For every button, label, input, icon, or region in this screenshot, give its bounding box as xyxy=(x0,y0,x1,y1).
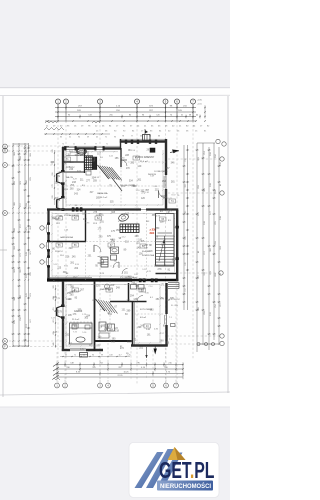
left sheet edge line xyxy=(0,96,7,397)
middle band right outer wall xyxy=(176,210,179,281)
interior wall vertical living room right xyxy=(165,190,167,198)
tiny annotation texts above top wall xyxy=(60,136,160,146)
interior wall vertical mid-left divider xyxy=(85,210,87,242)
chimney ellipse end dots xyxy=(77,151,86,153)
entrance arrow marker right side xyxy=(170,150,179,154)
middle band top wall xyxy=(47,206,178,211)
interior wall dimension chains xyxy=(52,150,177,347)
svg-text:22.35: 22.35 xyxy=(117,375,123,377)
svg-text:4.10 OBLOZ.: 4.10 OBLOZ. xyxy=(169,299,181,301)
dark hatched shaft rect xyxy=(120,224,139,233)
interior wall horizontal upper-left xyxy=(64,161,85,163)
left bay window upper xyxy=(57,172,64,185)
right axis marker circles xyxy=(216,139,226,345)
svg-text:97: 97 xyxy=(84,144,86,146)
svg-text:266: 266 xyxy=(52,172,54,175)
hallway fixtures lower-left of stairs xyxy=(101,247,119,267)
svg-text:10.25: 10.25 xyxy=(123,371,129,373)
basement stair diagonal hatch xyxy=(98,165,123,191)
svg-text:C: C xyxy=(4,164,6,167)
logo gold roof triangle xyxy=(168,447,186,460)
lower-right outer right wall xyxy=(165,283,175,346)
svg-text:90: 90 xyxy=(78,137,80,139)
left vertical dimension lines xyxy=(11,143,30,347)
lower wing mid vertical wall xyxy=(94,281,96,351)
garage interior car rect xyxy=(70,323,93,344)
svg-text:77: 77 xyxy=(131,136,133,138)
bottom grey band xyxy=(0,407,230,500)
building outer top wall left section xyxy=(62,146,121,148)
right sheet edge line xyxy=(227,96,229,393)
lower axis circle 7 xyxy=(105,284,110,289)
svg-text:99: 99 xyxy=(101,354,103,356)
svg-text:88: 88 xyxy=(158,136,160,138)
top sheet crease line xyxy=(0,94,230,97)
room label texts xyxy=(55,151,180,355)
svg-text:SCHODOWA: SCHODOWA xyxy=(142,254,155,257)
bottom-edge dimension chain below building xyxy=(60,354,131,357)
left dimension rotated numbers xyxy=(14,148,32,327)
middle band left outer wall with three windows xyxy=(47,210,50,282)
door dimension arrow below xyxy=(145,347,147,358)
mid-room door arcs pair xyxy=(94,245,104,263)
svg-text:+2.80: +2.80 xyxy=(197,100,202,102)
garage bottom wall with door opening xyxy=(62,348,103,350)
lower-right bottom wall xyxy=(131,344,168,346)
svg-text:GET.PL: GET.PL xyxy=(159,457,215,483)
bay window corner blocks xyxy=(61,170,64,318)
svg-text:POKOJ DZIENNY: POKOJ DZIENNY xyxy=(135,156,155,159)
exterior ramp diagonal hatch xyxy=(96,299,118,314)
fireplace black rect on top wall xyxy=(150,148,155,152)
svg-text:1.8 OBLOZENIA: 1.8 OBLOZENIA xyxy=(154,170,168,173)
lower-left outside dimension chain xyxy=(53,285,56,348)
svg-text:243: 243 xyxy=(52,149,54,152)
outside-left dimension chain xyxy=(52,149,55,205)
svg-text:45: 45 xyxy=(96,137,98,139)
svg-text:+0.00: +0.00 xyxy=(197,104,202,106)
svg-text:31: 31 xyxy=(69,137,71,139)
interior wall horizontal mid-left rooms xyxy=(50,241,86,243)
top dimension line row 2 xyxy=(55,110,206,114)
exterior entry steps right side xyxy=(168,283,179,289)
horizontal axis grid dashed lines xyxy=(8,146,219,347)
svg-text:39: 39 xyxy=(87,137,89,139)
door arc living room xyxy=(159,191,167,199)
small node circles on dashed line y344 xyxy=(197,343,215,346)
svg-text:KL. 0/30: KL. 0/30 xyxy=(171,305,178,307)
hall door arcs xyxy=(113,262,128,274)
svg-text:51: 51 xyxy=(73,144,75,146)
svg-text:90: 90 xyxy=(92,354,94,356)
svg-text:108: 108 xyxy=(109,354,112,356)
building outer top wall raised middle section xyxy=(120,139,167,150)
svg-text:126: 126 xyxy=(127,354,130,356)
corridor double wall vertical xyxy=(133,302,135,346)
logo blue stripes xyxy=(135,449,183,488)
bottom-left break slashes xyxy=(52,363,60,381)
svg-text:117: 117 xyxy=(118,354,121,356)
bottom dimension row 3 xyxy=(56,371,183,375)
svg-text:78: 78 xyxy=(122,136,124,138)
svg-text:31.4 m2: 31.4 m2 xyxy=(140,161,149,163)
kitchen counter line xyxy=(66,151,93,156)
near-building right dimension line pair xyxy=(182,145,189,310)
mid-left axis circles E F G xyxy=(40,226,48,264)
svg-text:389: 389 xyxy=(53,285,55,288)
entry arrow bottom right xyxy=(154,346,157,355)
interior wall y172 upper-left xyxy=(64,171,85,173)
bottom vertical dashed drops xyxy=(57,283,176,380)
svg-text:33: 33 xyxy=(140,136,142,138)
lower-mid room bottom wall xyxy=(95,340,132,342)
svg-text:GARDEROBA: GARDEROBA xyxy=(60,236,73,239)
top grey band xyxy=(0,0,230,88)
logo GET.PL text xyxy=(159,457,215,483)
svg-text:63: 63 xyxy=(65,354,67,356)
right dim group connector lines xyxy=(197,143,219,344)
svg-text:POKOJ: POKOJ xyxy=(55,251,62,253)
svg-text:72: 72 xyxy=(74,354,76,356)
lower-left bay window xyxy=(57,306,64,319)
svg-text:71: 71 xyxy=(106,144,108,146)
red annotation text xyxy=(150,228,157,236)
svg-text:81: 81 xyxy=(83,354,85,356)
svg-text:74: 74 xyxy=(62,144,64,146)
lower-mid room furniture xyxy=(99,322,115,338)
interior wall vertical upper-mid xyxy=(77,148,85,173)
svg-text:D: D xyxy=(4,212,6,215)
svg-text:446: 446 xyxy=(53,342,55,345)
boxed room number labels xyxy=(56,156,176,328)
svg-text:93: 93 xyxy=(114,137,116,139)
logo white card xyxy=(129,443,219,498)
bottom sheet crease line xyxy=(0,392,230,395)
sheet background xyxy=(0,0,230,500)
svg-text:21.3 m2: 21.3 m2 xyxy=(72,319,80,321)
top dimension line row 4 with break marks xyxy=(45,120,206,123)
svg-text:NIERUCHOMOŚCI: NIERUCHOMOŚCI xyxy=(160,483,211,490)
wc basin ellipse xyxy=(118,213,130,223)
bottom dimension row 1 xyxy=(56,362,183,366)
bottom dimension row 4 xyxy=(57,375,183,379)
top-left wavy break row xyxy=(44,128,110,135)
right dimension rotated numbers xyxy=(198,150,222,315)
tiny level texts top right xyxy=(197,100,202,106)
right vertical dimension lines xyxy=(195,143,220,352)
window tick marks on heavy wall xyxy=(139,279,157,282)
svg-text:423: 423 xyxy=(53,319,55,322)
interior dashed partition guides xyxy=(63,162,166,341)
svg-text:77: 77 xyxy=(95,144,97,146)
texts right of lower block xyxy=(169,299,181,341)
upper wing left outer wall with window gaps xyxy=(62,147,64,211)
upper wing right outer wall with window gap xyxy=(164,139,166,209)
top tiny annotation smudge row xyxy=(46,126,210,133)
building outer top wall right section xyxy=(64,146,69,148)
top axis marker circles 1-7 xyxy=(56,99,196,122)
interior wall vertical kitchen divider xyxy=(120,148,122,167)
logo NIERUCHOMOSCI banner xyxy=(157,481,213,491)
scattered small dimension texts inside plan xyxy=(50,150,176,351)
middle band heavy bottom wall xyxy=(47,278,178,280)
svg-text:71: 71 xyxy=(105,137,107,139)
door arc kitchen xyxy=(121,160,127,166)
chimney ellipse on top-left wall xyxy=(77,149,87,154)
bottom axis marker circles xyxy=(55,380,179,388)
vertical axis grid dashed lines xyxy=(58,104,193,385)
svg-text:14.2 m2: 14.2 m2 xyxy=(100,197,108,199)
chimney block above top wall xyxy=(143,129,151,141)
dark fixture cluster upper-mid xyxy=(85,156,97,175)
garage entry step xyxy=(80,353,88,358)
left bay window lower xyxy=(57,198,64,211)
left dim lines connectors and axis ticks xyxy=(12,144,29,347)
svg-text:278: 278 xyxy=(52,184,54,187)
top dimension line row 1 xyxy=(55,105,206,109)
svg-text:6.8 m2: 6.8 m2 xyxy=(140,317,147,319)
svg-text:294 i: 294 i xyxy=(150,231,156,235)
lower-right small room walls xyxy=(110,283,147,302)
left axis marker circles xyxy=(3,144,8,349)
svg-text:JADALNIA: JADALNIA xyxy=(97,192,108,195)
top dimension line row 3 xyxy=(55,115,206,119)
window sections on upper-left top wall xyxy=(65,147,105,151)
bottom dimension row 2 xyxy=(56,367,183,371)
svg-text:83: 83 xyxy=(60,137,62,139)
lower wing left outer wall xyxy=(62,281,64,351)
window marks on middle top wall xyxy=(72,205,82,211)
staircase xyxy=(156,214,178,274)
window tick marks raised top wall xyxy=(125,140,157,144)
